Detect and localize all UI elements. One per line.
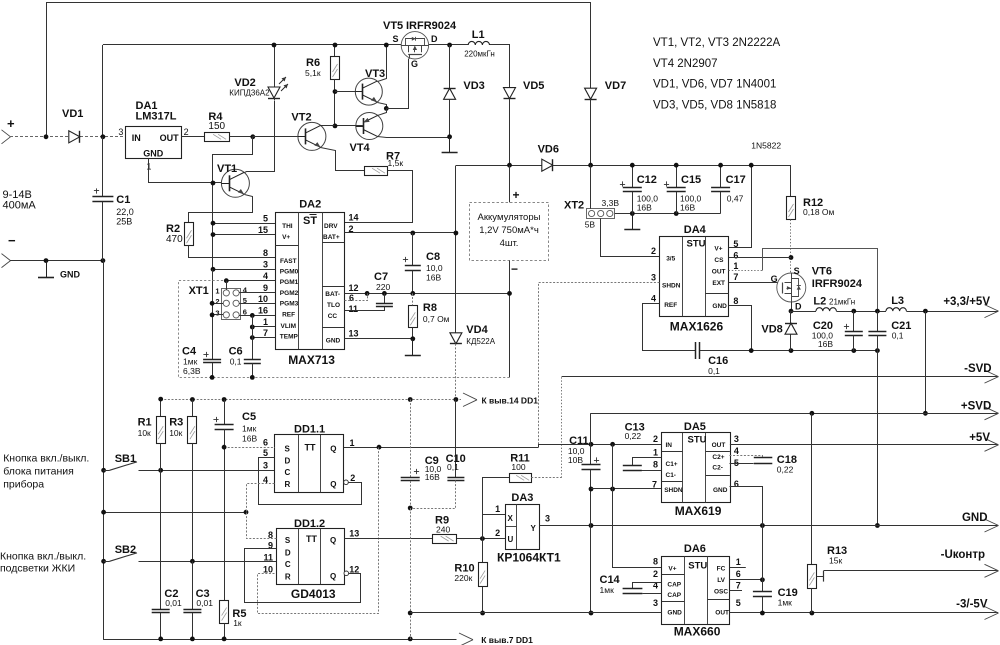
svg-text:MAX619: MAX619: [675, 504, 722, 518]
resistor R9: [433, 535, 457, 544]
output arrow +SVD: [985, 407, 999, 414]
svg-text:13: 13: [349, 529, 359, 539]
svg-text:GND: GND: [60, 270, 81, 280]
svg-text:2: 2: [350, 473, 355, 483]
svg-text:−: −: [8, 233, 16, 248]
junction C21/feedback top: [875, 309, 880, 314]
svg-text:1N5822: 1N5822: [751, 141, 781, 151]
junction REF node: [250, 313, 255, 318]
wire DA5 OUT to +5V: [730, 444, 998, 446]
svg-text:КД522А: КД522А: [466, 337, 495, 346]
svg-text:К выв.7 DD1: К выв.7 DD1: [481, 635, 533, 645]
svg-text:КР1064КТ1: КР1064КТ1: [497, 551, 561, 565]
junction node B VT2 collector/VT4 base: [333, 124, 338, 129]
junction VD2 anode on rail: [272, 43, 277, 48]
junction input+ raw: [44, 134, 49, 139]
wire VT4 emitter up to G-node: [378, 109, 387, 116]
svg-text:21мкГн: 21мкГн: [829, 298, 855, 307]
svg-text:DRV: DRV: [324, 223, 338, 230]
svg-text:L2: L2: [813, 296, 826, 308]
svg-text:1мк: 1мк: [778, 598, 793, 608]
svg-text:6: 6: [349, 293, 354, 303]
wire Q1 jog to IN rail: [539, 445, 662, 448]
svg-text:MAX713: MAX713: [288, 353, 335, 367]
svg-text:6: 6: [263, 438, 268, 448]
wire input+ dashed to DA1 IN: [10, 136, 126, 138]
wire DA3 Y to GND rail: [540, 525, 998, 527]
wire reset loop from Q1: [258, 448, 379, 614]
wire VD4 to DD1 vdd rail: [455, 344, 457, 400]
svg-text:10В: 10В: [568, 455, 583, 465]
junction R13 bottom: [810, 611, 815, 616]
svg-text:VD1, VD6, VD7 1N4001: VD1, VD6, VD7 1N4001: [653, 78, 776, 90]
wire buck gnd down to main GND: [877, 351, 879, 526]
svg-text:TLO: TLO: [327, 302, 340, 309]
wire node A to VT2 base: [253, 136, 298, 138]
svg-text:VT4: VT4: [350, 142, 371, 154]
resistor R2: [185, 223, 194, 246]
svg-text:IN: IN: [132, 133, 141, 143]
svg-text:блока питания: блока питания: [3, 466, 74, 478]
output arrow -SVD: [985, 370, 999, 377]
LED arrows VD2: [279, 77, 286, 84]
svg-text:1,5к: 1,5к: [388, 158, 404, 168]
svg-text:2: 2: [651, 246, 656, 256]
svg-text:К выв.14 DD1: К выв.14 DD1: [482, 396, 539, 406]
capacitor C7: [384, 293, 386, 303]
svg-text:L3: L3: [891, 295, 904, 307]
ground input: [46, 261, 48, 278]
svg-text:STU: STU: [688, 434, 707, 445]
svg-text:1мк: 1мк: [600, 585, 615, 595]
svg-text:470: 470: [166, 234, 183, 245]
svg-text:THI: THI: [282, 223, 293, 230]
junction C19 bottom: [760, 611, 765, 616]
svg-text:КИПД36А2: КИПД36А2: [229, 89, 270, 98]
capacitor C20: [853, 311, 855, 331]
svg-text:GND: GND: [712, 303, 727, 310]
svg-text:7: 7: [736, 581, 741, 591]
capacitor C17: [720, 165, 722, 188]
svg-text:C: C: [285, 560, 291, 569]
svg-text:OUT: OUT: [712, 442, 726, 449]
junction VT5 source node: [384, 43, 389, 48]
svg-text:VD5: VD5: [523, 80, 544, 92]
svg-text:IRFR9024: IRFR9024: [812, 278, 863, 290]
wire +SVD corner down to IN rail: [590, 413, 592, 465]
svg-text:R1: R1: [138, 417, 152, 429]
junction VT3 base: [333, 89, 338, 94]
resistor R5: [224, 447, 226, 600]
wire VD6 to C-rail: [553, 165, 791, 167]
svg-text:OUT: OUT: [160, 133, 180, 143]
svg-text:16В: 16В: [818, 339, 833, 349]
wire DA4 CS pin6: [729, 257, 791, 259]
ground under C12: [632, 214, 634, 230]
svg-text:8: 8: [263, 248, 268, 258]
junction R1 bottom: [158, 468, 163, 473]
wire VT2 collector to node B: [321, 125, 335, 127]
wire VT4 collector to VD3 node: [378, 137, 450, 138]
wire R1 bottom: [160, 443, 162, 470]
wire XT2 mid pin to DA4 3/5: [601, 219, 660, 257]
arrow K vyv.14 DD1: [463, 393, 477, 400]
svg-text:Q: Q: [330, 445, 336, 454]
svg-text:2: 2: [215, 297, 219, 306]
svg-text:5В: 5В: [585, 220, 596, 230]
svg-text:VT4 2N2907: VT4 2N2907: [653, 58, 718, 70]
wire DA6 LV pin6: [730, 579, 763, 581]
svg-text:3: 3: [545, 514, 550, 524]
svg-text:15к: 15к: [829, 556, 842, 566]
junction BAT+ node: [454, 231, 459, 236]
svg-text:+5V: +5V: [969, 432, 990, 444]
wire DA1 OUT to R4: [181, 136, 204, 138]
wire TLO pin6: [345, 294, 368, 301]
wire XT1 pin6 to REF: [239, 315, 275, 317]
junction R3 bottom: [190, 559, 195, 564]
wire +SVD rail: [591, 413, 999, 415]
svg-text:PGM1: PGM1: [280, 279, 299, 286]
svg-text:16В: 16В: [425, 472, 440, 482]
junction DA1-gnd/VT1 base: [211, 181, 216, 186]
wire TEMP pin7: [252, 337, 275, 339]
svg-text:10: 10: [263, 565, 273, 575]
svg-text:14: 14: [349, 213, 359, 223]
svg-text:PGM0: PGM0: [280, 269, 299, 276]
svg-text:C: C: [285, 468, 291, 477]
svg-text:LV: LV: [717, 577, 725, 584]
svg-text:GND: GND: [326, 338, 341, 345]
svg-text:C2-: C2-: [712, 465, 722, 472]
resistor R4: [205, 133, 230, 142]
svg-text:STU: STU: [688, 560, 707, 571]
svg-text:GD4013: GD4013: [291, 587, 336, 601]
svg-text:+: +: [513, 188, 520, 202]
svg-text:Q: Q: [330, 536, 336, 545]
svg-text:4шт.: 4шт.: [500, 238, 519, 249]
wire SHDN pin7: [591, 488, 662, 490]
svg-text:0,7 Ом: 0,7 Ом: [423, 314, 450, 324]
capacitor C11: [582, 464, 601, 466]
wire L3 to output arrow: [906, 311, 998, 313]
junction C6 bottom on dashed rail: [250, 375, 255, 380]
wire VT3 emitter to G-node: [378, 103, 387, 109]
svg-text:DD1.2: DD1.2: [294, 518, 325, 530]
svg-text:REF: REF: [664, 302, 677, 309]
svg-text:8: 8: [653, 460, 658, 470]
diode VD4: [450, 333, 462, 344]
wire XT1 pin1 from PGM1: [226, 281, 228, 290]
junction VD3 anode/VT4 collector: [447, 134, 452, 139]
svg-text:D: D: [431, 34, 438, 44]
svg-text:220: 220: [376, 282, 390, 292]
svg-text:BAT-: BAT-: [325, 291, 340, 298]
svg-text:+3,3/+5V: +3,3/+5V: [943, 296, 990, 308]
capacitor C3: [192, 561, 194, 609]
svg-text:S: S: [393, 34, 399, 44]
capacitor C19: [753, 591, 772, 593]
inversion bubble Q12: [344, 571, 349, 576]
svg-text:GND: GND: [143, 149, 164, 159]
junction C9 bottom: [408, 506, 413, 511]
wire BAT- rail pin12: [344, 293, 509, 295]
svg-text:TEMP: TEMP: [280, 334, 299, 341]
svg-text:100: 100: [511, 462, 525, 472]
svg-text:D: D: [285, 549, 291, 558]
wire R9 to DA3: [457, 538, 506, 540]
svg-text:1мк: 1мк: [242, 424, 257, 434]
svg-text:1: 1: [736, 557, 741, 567]
wire D pin9 feedback: [245, 549, 361, 603]
transistor VT1: [221, 169, 249, 197]
junction C20 top: [851, 309, 856, 314]
svg-text:0,1: 0,1: [230, 357, 242, 367]
svg-text:DD1.1: DD1.1: [294, 423, 325, 435]
svg-text:XT2: XT2: [564, 200, 584, 212]
wire second rail after VD1 (input+ bus): [103, 44, 401, 46]
svg-text:VD3: VD3: [463, 80, 484, 92]
junction VD5 bottom: [507, 163, 512, 168]
svg-text:VD3, VD5, VD8 1N5818: VD3, VD5, VD8 1N5818: [653, 100, 776, 112]
svg-text:VLIM: VLIM: [281, 323, 297, 330]
wire DA4 REF pin4 to C16: [643, 304, 696, 351]
svg-text:VD8: VD8: [761, 324, 782, 336]
svg-text:L1: L1: [472, 29, 485, 41]
junction DA6 vplus branch: [610, 487, 615, 492]
svg-text:DA4: DA4: [684, 224, 707, 236]
svg-text:3: 3: [263, 461, 268, 471]
wire adj vertical to XT1: [212, 269, 214, 303]
capacitor C16: [695, 342, 697, 359]
junction VD7 bottom: [588, 163, 593, 168]
wire REF vertical to C6: [252, 315, 254, 359]
op-amp DA3 KP1064KT1: [506, 505, 540, 550]
svg-text:C2+: C2+: [712, 454, 724, 461]
wire R3 down to SB2 line: [192, 443, 194, 561]
wire XT2 right to cap gnd rail: [615, 213, 721, 215]
ground under R8: [412, 339, 414, 356]
svg-text:2: 2: [184, 127, 189, 137]
svg-text:1: 1: [215, 287, 219, 296]
wire DA5 GND pin6: [730, 487, 763, 526]
output arrow -3/-5V: [985, 607, 999, 614]
diode VD3: [449, 45, 451, 88]
junction C8 top: [410, 231, 415, 236]
input plus terminal: [2, 130, 11, 137]
wire LV vertical / C19: [762, 526, 764, 592]
svg-text:VD7: VD7: [605, 80, 626, 92]
junction R9/R10/U: [480, 536, 485, 541]
svg-text:DA5: DA5: [684, 421, 706, 433]
output arrow +3,3/+5V: [985, 305, 999, 312]
ground under VD3: [449, 137, 451, 153]
capacitor C8: [412, 233, 414, 266]
junction +3.3V to +SVD link: [923, 309, 928, 314]
svg-text:5,1к: 5,1к: [305, 68, 321, 78]
svg-text:16: 16: [258, 306, 268, 316]
diode VD7: [585, 88, 597, 99]
svg-text:VD4: VD4: [466, 324, 488, 336]
svg-text:2: 2: [495, 528, 500, 538]
svg-text:DA2: DA2: [299, 199, 321, 211]
transistor VT3: [355, 78, 382, 105]
diode VD8: [790, 311, 792, 323]
svg-text:GND: GND: [667, 610, 682, 617]
svg-text:C15: C15: [681, 174, 701, 186]
svg-text:0,1: 0,1: [708, 366, 720, 376]
wire S/R tie rail: [104, 512, 246, 514]
svg-text:PGM2: PGM2: [280, 290, 299, 297]
capacitor C1: [102, 137, 104, 197]
capacitor C4: [203, 359, 221, 361]
svg-text:VT2: VT2: [291, 112, 311, 124]
svg-text:11: 11: [263, 553, 273, 563]
wire DA4 EXT pin7 to gate: [729, 282, 783, 284]
svg-text:11: 11: [349, 304, 359, 314]
svg-text:V+: V+: [668, 566, 676, 573]
svg-text:6,3В: 6,3В: [183, 366, 201, 376]
mosfet VT5 IRFR9024: [401, 32, 428, 59]
svg-text:C1: C1: [116, 194, 130, 206]
wire VLIM pin1: [252, 326, 275, 328]
svg-text:4: 4: [651, 294, 656, 304]
op-amp DA6 MAX660: [662, 557, 730, 625]
svg-text:7: 7: [733, 272, 738, 282]
svg-text:8: 8: [733, 296, 738, 306]
svg-text:220к: 220к: [454, 573, 472, 583]
wire DA4 GND pin8: [729, 306, 752, 351]
svg-text:0,18 Ом: 0,18 Ом: [803, 207, 835, 217]
svg-text:240: 240: [436, 525, 450, 535]
wire XT1 pin3 to adj: [212, 314, 223, 316]
svg-text:6: 6: [736, 569, 741, 579]
wire D pin5 feedback: [259, 458, 362, 505]
svg-text:VT6: VT6: [812, 266, 832, 278]
junction R8 bottom: [410, 336, 415, 341]
wire DD1 vdd rail K vyv.14: [160, 399, 162, 417]
svg-text:VD1: VD1: [62, 108, 83, 120]
svg-text:VT1: VT1: [217, 163, 237, 175]
junction R13 top feed: [810, 411, 815, 416]
resistor R10: [482, 539, 484, 563]
svg-text:IN: IN: [666, 442, 673, 449]
svg-text:X: X: [508, 514, 514, 523]
wire C16 to gnd-of-buck rail: [700, 350, 878, 352]
svg-text:R: R: [285, 480, 291, 489]
svg-text:3,3В: 3,3В: [602, 198, 620, 208]
wire VT2 emitter to R7: [321, 148, 365, 171]
wire GND pin13: [344, 338, 413, 340]
svg-text:GND: GND: [713, 487, 728, 494]
wire VD6 input rail: [456, 165, 542, 167]
wire BAT+ pin2: [344, 232, 456, 234]
svg-text:OUT: OUT: [715, 610, 729, 617]
junction gnd rail c11: [589, 523, 594, 528]
svg-text:OSC: OSC: [714, 589, 728, 596]
wire XT1 pin4 to PGM2: [239, 292, 275, 294]
resistor R13 trimmer: [811, 413, 813, 564]
wire dashed battery-minus loop: [179, 281, 510, 378]
capacitor C15: [676, 165, 678, 188]
wire input minus: [10, 260, 103, 262]
svg-text:0,22: 0,22: [777, 465, 794, 475]
resistor R12: [790, 166, 792, 197]
svg-text:10,0: 10,0: [426, 263, 443, 273]
svg-text:1: 1: [733, 261, 738, 271]
wire XT1 pin5 to PGM3: [239, 303, 275, 305]
svg-text:U: U: [508, 535, 514, 544]
svg-text:1: 1: [350, 438, 355, 448]
svg-text:CS: CS: [714, 257, 724, 264]
wire VT3 collector up to rail: [378, 45, 387, 82]
wire DA4 V+ pin5 to rail: [729, 166, 752, 248]
svg-text:DA3: DA3: [511, 492, 533, 504]
svg-text:+SVD: +SVD: [961, 401, 991, 413]
svg-text:15: 15: [258, 225, 268, 235]
wire left gnd vertical: [103, 261, 105, 640]
junction VT6 drain: [789, 309, 794, 314]
svg-text:FAST: FAST: [280, 258, 297, 265]
resistor R8: [409, 306, 418, 328]
arrow K vyv.7 DD1: [459, 633, 473, 640]
wire XT1 pin2 to adj: [212, 303, 223, 305]
svg-text:−: −: [511, 262, 518, 276]
wire L1 to VD5: [490, 45, 510, 88]
svg-text:0,01: 0,01: [165, 598, 182, 608]
wire gnd link down: [410, 508, 412, 639]
svg-text:1: 1: [495, 504, 500, 514]
resistor R6: [334, 45, 336, 57]
svg-text:22,0: 22,0: [116, 207, 134, 217]
wire BAT+ vertical: [455, 166, 457, 333]
svg-text:C17: C17: [726, 174, 746, 186]
svg-text:1: 1: [263, 317, 268, 327]
svg-text:V+: V+: [714, 246, 722, 253]
wire VT5 drain to L1: [429, 44, 469, 46]
svg-text:Кнопка вкл./выкл.: Кнопка вкл./выкл.: [0, 551, 86, 563]
resistor R1: [157, 417, 166, 444]
svg-text:EXT: EXT: [712, 280, 725, 287]
wire node A down to adj vertical: [213, 137, 253, 270]
resistor R11: [510, 474, 532, 483]
wire VT5 gate down to G-node: [387, 59, 409, 109]
wire DA6 FC stub: [730, 567, 746, 569]
svg-text:0,1: 0,1: [447, 462, 459, 472]
svg-text:10: 10: [258, 294, 268, 304]
wire S pin8: [247, 513, 277, 539]
junction C4 bottom on dashed rail: [210, 375, 215, 380]
junction after VD1: [101, 134, 106, 139]
svg-text:R8: R8: [423, 302, 437, 314]
wire R pin4: [247, 484, 275, 513]
svg-text:MAX660: MAX660: [674, 625, 721, 639]
svg-text:MAX1626: MAX1626: [670, 320, 724, 334]
inductor L2: [791, 311, 816, 313]
wire VT1 collector to VD2 cathode: [245, 101, 275, 173]
svg-text:LM317L: LM317L: [136, 111, 177, 123]
svg-text:5: 5: [263, 214, 268, 224]
wire L2 to C20: [836, 311, 886, 313]
svg-text:VT1, VT2, VT3 2N2222A: VT1, VT2, VT3 2N2222A: [653, 37, 781, 49]
inductor L1: [468, 41, 489, 45]
svg-text:13: 13: [349, 329, 359, 339]
svg-text:6: 6: [733, 251, 738, 261]
svg-text:C1-: C1-: [666, 472, 676, 479]
svg-text:400мА: 400мА: [3, 200, 37, 212]
capacitor C18: [730, 456, 763, 458]
junction LV node: [760, 577, 765, 582]
